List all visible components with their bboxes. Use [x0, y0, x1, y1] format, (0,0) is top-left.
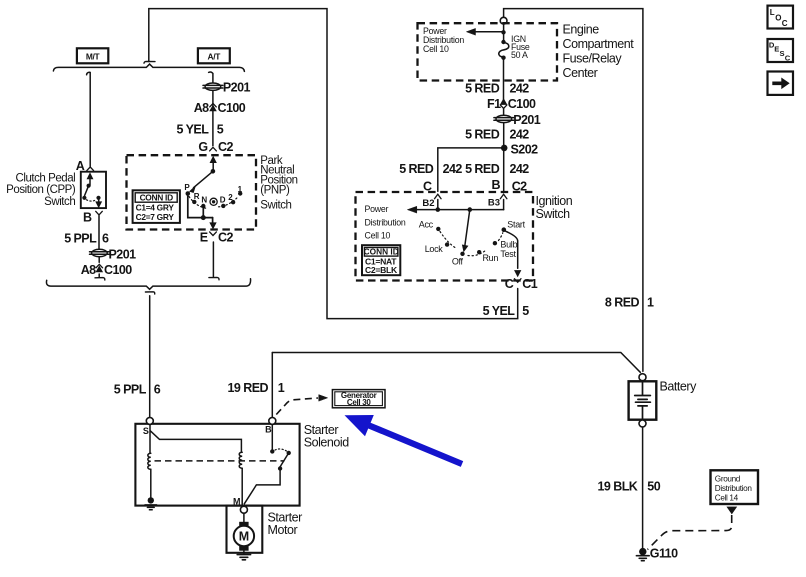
- svg-text:P201: P201: [223, 81, 251, 95]
- arrow from Ground Distribution box: [727, 507, 737, 514]
- svg-text:Ground: Ground: [715, 474, 741, 483]
- svg-text:5: 5: [217, 122, 224, 136]
- svg-text:G110: G110: [650, 546, 678, 560]
- battery cell symbol: [635, 382, 651, 419]
- svg-text:P: P: [184, 183, 190, 192]
- PNP contact 1: [238, 191, 242, 195]
- PNP contact P: [186, 191, 191, 196]
- label 5 PPL 6 (starter feed): [114, 383, 161, 397]
- wire: A/T branch P201 to C100: [212, 91, 214, 146]
- plunger dashed link: [155, 460, 285, 462]
- PNP contact N: [201, 204, 205, 208]
- pin E C2 exit of PNP switch: [210, 232, 217, 236]
- svg-text:G: G: [198, 140, 207, 154]
- motor armature M: [234, 526, 254, 546]
- svg-text:M: M: [239, 530, 249, 544]
- motor ground: [237, 555, 250, 560]
- svg-text:C100: C100: [508, 97, 536, 111]
- svg-text:L: L: [770, 8, 775, 17]
- wire: P201 to S202: [503, 123, 505, 146]
- svg-text:242: 242: [510, 128, 530, 142]
- wire: starter B feed to battery: [272, 353, 640, 373]
- ignition pin B3 stem: [503, 200, 505, 210]
- arrow to Power Distribution Cell 10: [467, 28, 504, 35]
- svg-text:N: N: [201, 196, 207, 205]
- svg-text:1: 1: [278, 381, 285, 395]
- svg-text:Cell 10: Cell 10: [423, 44, 449, 54]
- wire: M/T branch down to CPP switch pin A: [87, 72, 94, 170]
- svg-text:CONN ID: CONN ID: [364, 247, 399, 257]
- svg-text:19 BLK: 19 BLK: [598, 479, 638, 493]
- svg-text:Lock: Lock: [425, 244, 444, 254]
- PNP entry arrow from G: [210, 157, 216, 171]
- svg-text:Acc: Acc: [419, 219, 434, 229]
- svg-text:Fuse/Relay: Fuse/Relay: [563, 52, 623, 66]
- svg-text:E: E: [200, 230, 208, 244]
- ignition dotted contact arc: [440, 232, 503, 256]
- wire: B terminal riser: [271, 353, 273, 418]
- svg-text:1: 1: [238, 185, 243, 194]
- connector P201 (ignition feed): [494, 115, 514, 122]
- ignition contact Off: [460, 252, 464, 256]
- wire: battery negative to G110: [642, 427, 644, 549]
- svg-text:Cell 30: Cell 30: [347, 398, 372, 407]
- svg-text:C1: C1: [522, 277, 537, 291]
- battery box: [629, 381, 657, 419]
- pin B C2 entry: [500, 194, 507, 199]
- label 19 RED 1: [228, 381, 285, 395]
- svg-text:O: O: [775, 13, 781, 22]
- solenoid winding feed from S: [150, 424, 241, 453]
- svg-text:A8: A8: [81, 263, 96, 277]
- PNP contact D: [221, 204, 225, 208]
- pin C entry: [435, 194, 442, 199]
- svg-text:6: 6: [102, 232, 109, 246]
- hold-in winding (left coil): [148, 453, 151, 469]
- fuse IGN 50 A symbol: [499, 40, 509, 60]
- svg-text:B3: B3: [488, 198, 500, 209]
- battery bottom terminal ring: [639, 420, 646, 427]
- svg-text:Bulb: Bulb: [500, 239, 517, 249]
- DESC index box: [768, 39, 794, 62]
- svg-text:6: 6: [154, 383, 161, 397]
- junction dot to power distribution arrow: [501, 30, 505, 34]
- svg-text:Distribution: Distribution: [715, 484, 753, 493]
- PNP dotted contact arc: [189, 197, 239, 209]
- motor brush bottom: [239, 546, 248, 554]
- svg-text:Compartment: Compartment: [563, 37, 635, 51]
- wire: 5 YEL feed loop from ignition switch C1 around to transmission bus: [144, 9, 518, 319]
- svg-text:A8: A8: [194, 101, 209, 115]
- svg-text:C2: C2: [218, 230, 233, 244]
- svg-text:50: 50: [647, 479, 660, 493]
- svg-text:242: 242: [443, 162, 463, 176]
- svg-text:C: C: [505, 277, 514, 291]
- CONN ID table (ignition): [362, 245, 400, 275]
- svg-text:5 RED: 5 RED: [465, 128, 500, 142]
- svg-text:Test: Test: [500, 249, 516, 259]
- B terminal ring: [269, 417, 276, 424]
- svg-text:A/T: A/T: [208, 52, 222, 62]
- LOC index box: [768, 6, 794, 29]
- label 5 YEL 5 (ignition output): [483, 304, 530, 318]
- svg-text:Distribution: Distribution: [365, 217, 406, 227]
- svg-text:5 PPL: 5 PPL: [114, 383, 147, 397]
- pin B exit of CPP switch: [83, 210, 92, 224]
- starter motor box: [227, 506, 263, 553]
- label 5 RED 242 (above S202): [465, 128, 529, 142]
- ignition contact Bulb Test: [493, 241, 497, 245]
- label Starter Solenoid: [304, 423, 350, 450]
- label Battery: [660, 379, 698, 393]
- svg-text:B2: B2: [422, 198, 434, 209]
- svg-text:Start: Start: [507, 220, 525, 230]
- node A/T: [198, 48, 230, 63]
- ignition contact Acc: [436, 227, 440, 231]
- wire: C100 to P201: [503, 109, 505, 116]
- svg-text:1: 1: [647, 295, 654, 309]
- pin A label: [76, 159, 85, 173]
- wire: A/T branch hook below bus: [209, 72, 213, 82]
- label IGN Fuse 50 A: [511, 34, 530, 60]
- CPP entry arrow: [87, 173, 93, 185]
- svg-text:A: A: [76, 159, 85, 173]
- CPP wiper arm and contacts: [82, 184, 101, 208]
- svg-text:Motor: Motor: [268, 523, 298, 537]
- motor brush top: [239, 513, 248, 526]
- hold-in winding ground: [145, 469, 157, 509]
- pin G C2 entry to PNP switch: [210, 147, 217, 151]
- PNP contact D-circled: [210, 198, 217, 205]
- svg-text:C2=BLK: C2=BLK: [365, 265, 398, 275]
- connector A8 C100 (A/T branch): [210, 103, 217, 111]
- svg-text:242: 242: [510, 82, 530, 96]
- connector F1 C100: [500, 99, 507, 108]
- label Power Distribution Cell 10 (ignition): [365, 204, 406, 241]
- node M/T: [77, 48, 108, 63]
- label Ignition Switch: [536, 194, 573, 221]
- label Engine Compartment Fuse/Relay Center: [563, 23, 635, 80]
- connector P201 (CPP branch): [90, 249, 110, 256]
- svg-text:Run: Run: [482, 253, 498, 263]
- svg-text:Center: Center: [563, 66, 598, 80]
- svg-text:5 RED: 5 RED: [465, 82, 500, 96]
- ignition contact Start: [502, 227, 507, 232]
- wire: S202 branch left and down to ignition pin C: [438, 148, 504, 191]
- wire: top transmission bus: [53, 64, 244, 71]
- blue callout arrow: [345, 415, 464, 467]
- pin C C1 exit of ignition switch: [514, 279, 521, 283]
- svg-text:C100: C100: [104, 263, 132, 277]
- Ground Distribution Cell 14 box: [711, 470, 759, 504]
- CPP switch box: [81, 172, 106, 208]
- wire: CPP pin B down to bus: [95, 216, 105, 281]
- svg-text:R: R: [194, 192, 200, 201]
- svg-text:Power: Power: [365, 204, 389, 214]
- svg-text:CONN ID: CONN ID: [140, 193, 174, 203]
- svg-text:S: S: [143, 426, 149, 436]
- ignition output from Start to pin C: [506, 231, 521, 276]
- ignition contact Lock: [445, 242, 449, 246]
- dashed reference wire to Generator Cell 30: [276, 398, 318, 415]
- label 19 BLK 50: [598, 479, 661, 493]
- wire: ring down into fuse: [503, 24, 505, 40]
- label 5 RED 242 (pin C branch): [399, 162, 462, 176]
- svg-text:242: 242: [510, 162, 530, 176]
- arrowhead into generator box: [319, 395, 328, 401]
- svg-text:B: B: [83, 210, 92, 224]
- M terminal ring: [240, 506, 247, 513]
- svg-text:Switch: Switch: [44, 196, 75, 208]
- svg-text:5 YEL: 5 YEL: [483, 304, 516, 318]
- svg-text:Cell 14: Cell 14: [715, 493, 739, 502]
- svg-text:19 RED: 19 RED: [228, 381, 269, 395]
- pull-in winding (right coil): [239, 452, 242, 468]
- svg-text:C2=7 GRY: C2=7 GRY: [136, 212, 175, 222]
- starter solenoid box: [135, 424, 299, 506]
- label Power Distribution Cell 10 (fuse block): [423, 26, 464, 54]
- wire: bottom bus: [46, 279, 250, 290]
- splice S202: [501, 145, 508, 152]
- svg-text:P201: P201: [109, 247, 137, 261]
- wire: S202 down to ignition pin B: [503, 148, 505, 191]
- CONN ID table (PNP): [133, 190, 180, 223]
- svg-text:5 PPL: 5 PPL: [64, 232, 97, 246]
- svg-text:Clutch Pedal: Clutch Pedal: [15, 172, 75, 184]
- svg-text:Cell 10: Cell 10: [365, 231, 391, 241]
- battery top terminal ring: [639, 374, 646, 381]
- svg-text:50 A: 50 A: [511, 50, 528, 60]
- svg-text:5 YEL: 5 YEL: [177, 122, 210, 136]
- svg-text:C100: C100: [218, 101, 246, 115]
- svg-text:Switch: Switch: [536, 207, 571, 221]
- svg-text:B: B: [265, 425, 272, 435]
- svg-text:C2: C2: [218, 140, 233, 154]
- ignition wiper arrow: [462, 207, 472, 251]
- svg-text:(PNP): (PNP): [260, 185, 290, 197]
- label 5 PPL 6: [64, 232, 109, 246]
- label Clutch Pedal Position (CPP) Switch: [6, 172, 76, 208]
- connector A8 C100 (CPP branch): [96, 264, 103, 272]
- Ignition Switch dashed box: [356, 192, 534, 281]
- Generator Cell 30 reference box: [332, 390, 385, 408]
- label 5 RED 242 (pin B branch): [465, 162, 529, 176]
- svg-text:S202: S202: [511, 143, 539, 157]
- PNP contact 2: [231, 200, 235, 204]
- pull-in winding to M terminal: [241, 468, 243, 506]
- svg-text:Battery: Battery: [660, 379, 698, 393]
- svg-text:P201: P201: [513, 113, 541, 127]
- svg-text:D: D: [220, 196, 226, 205]
- svg-text:Engine: Engine: [563, 23, 600, 37]
- svg-text:C: C: [782, 19, 788, 28]
- PNP contact R: [192, 200, 196, 204]
- dashed wire from cell 14 to G110: [648, 515, 732, 550]
- wire: bus center foot down to starter solenoid S: [145, 292, 154, 418]
- PNP output wire P and N to pin E: [188, 196, 216, 229]
- next-page arrow box: [768, 72, 794, 95]
- svg-text:5: 5: [522, 304, 529, 318]
- svg-text:Off: Off: [452, 256, 464, 266]
- Engine Compartment Fuse/Relay Center dashed box: [418, 23, 558, 80]
- svg-text:M/T: M/T: [86, 52, 101, 62]
- ignition pin B2 stem: [436, 200, 441, 212]
- PNP wiper arm: [190, 169, 216, 193]
- ground G110: [636, 548, 649, 561]
- ignition feed rail to power distribution arrow: [408, 206, 504, 213]
- wire: fuse down to C100: [503, 58, 505, 100]
- svg-text:Ignition: Ignition: [536, 194, 573, 208]
- svg-text:Solenoid: Solenoid: [304, 436, 350, 450]
- PNP switch dashed box: [127, 155, 257, 229]
- wire: battery feed from fuse block to battery (8 RED): [504, 9, 643, 372]
- ignition contact Run: [477, 250, 481, 254]
- svg-text:5 RED: 5 RED: [399, 162, 434, 176]
- label 8 RED 1: [605, 295, 654, 309]
- label Starter Motor: [268, 510, 303, 537]
- svg-text:Position (CPP): Position (CPP): [6, 184, 76, 196]
- label 5 RED 242 (above C100): [465, 82, 529, 96]
- solenoid contact from B: [244, 424, 291, 503]
- junction ring at fuse block feed: [500, 17, 507, 24]
- S terminal ring: [146, 417, 153, 424]
- svg-text:F1: F1: [487, 97, 501, 111]
- label Park Neutral Position (PNP) Switch: [260, 155, 297, 212]
- label 5 YEL 5 (A/T branch): [177, 122, 224, 136]
- wire: PNP pin E down to bottom bus: [209, 242, 219, 280]
- svg-text:C: C: [785, 53, 791, 62]
- svg-text:8 RED: 8 RED: [605, 295, 640, 309]
- connector P201 (A/T branch): [203, 83, 223, 90]
- svg-text:Switch: Switch: [260, 200, 291, 212]
- svg-text:B: B: [492, 178, 501, 192]
- svg-text:5 RED: 5 RED: [465, 162, 500, 176]
